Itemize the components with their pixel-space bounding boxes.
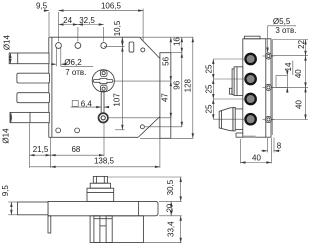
svg-text:14: 14 bbox=[284, 62, 293, 71]
svg-text:25: 25 bbox=[204, 84, 213, 93]
svg-text:128: 128 bbox=[184, 78, 193, 92]
svg-text:40: 40 bbox=[295, 100, 304, 109]
svg-text:47: 47 bbox=[160, 93, 169, 102]
svg-text:Ø14: Ø14 bbox=[1, 128, 10, 144]
svg-text:9,5: 9,5 bbox=[1, 185, 10, 197]
svg-text:40: 40 bbox=[252, 153, 261, 162]
svg-text:30,5: 30,5 bbox=[166, 179, 175, 195]
svg-text:25: 25 bbox=[204, 64, 213, 73]
svg-text:10,5: 10,5 bbox=[113, 20, 122, 36]
svg-text:68: 68 bbox=[71, 145, 80, 154]
svg-text:3 отв.: 3 отв. bbox=[275, 26, 296, 35]
svg-text:20: 20 bbox=[165, 203, 174, 212]
svg-text:107: 107 bbox=[113, 93, 122, 107]
svg-text:33,4: 33,4 bbox=[167, 221, 176, 237]
svg-text:96: 96 bbox=[173, 80, 182, 89]
svg-text:7 отв.: 7 отв. bbox=[65, 68, 86, 77]
svg-text:106,5: 106,5 bbox=[101, 2, 122, 11]
svg-text:9,5: 9,5 bbox=[36, 2, 48, 11]
svg-text:24: 24 bbox=[63, 16, 72, 25]
svg-text:138,5: 138,5 bbox=[94, 157, 115, 166]
svg-text:21,5: 21,5 bbox=[33, 145, 49, 154]
svg-text:25: 25 bbox=[204, 104, 213, 113]
svg-text:22: 22 bbox=[297, 39, 306, 48]
svg-text:Ø14: Ø14 bbox=[2, 34, 11, 50]
svg-text:40: 40 bbox=[294, 69, 303, 78]
svg-text:8: 8 bbox=[277, 141, 282, 150]
svg-text:Ø6,2: Ø6,2 bbox=[64, 58, 82, 67]
svg-text:32,5: 32,5 bbox=[79, 16, 95, 25]
svg-text:Ø5,5: Ø5,5 bbox=[273, 17, 291, 26]
svg-text:16: 16 bbox=[173, 37, 182, 46]
svg-text:56: 56 bbox=[162, 56, 171, 65]
